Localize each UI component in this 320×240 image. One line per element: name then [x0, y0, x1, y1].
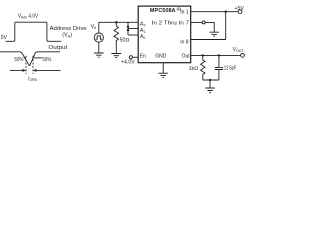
svg-text:50%: 50% [14, 57, 23, 63]
wire output waveform with glitch notch [0, 52, 60, 66]
svg-text:Add: Add [21, 16, 27, 20]
svg-text:): ) [70, 33, 72, 39]
node tOPEN label [28, 76, 37, 82]
svg-text:50%: 50% [42, 57, 51, 63]
svg-text:1: 1 [144, 30, 146, 34]
svg-text:GND: GND [155, 54, 167, 60]
node junction dot RC join [209, 79, 211, 81]
node tOPEN measurement arrow right [37, 69, 61, 71]
ground below GND pin [158, 73, 168, 77]
svg-text:Out: Out [182, 53, 191, 59]
wire source top lead [98, 22, 100, 33]
svg-text:12.5pF: 12.5pF [224, 65, 236, 71]
node 1k ohm label [189, 66, 198, 72]
resistor R 1k load [201, 55, 205, 80]
node +5V terminal [238, 10, 242, 14]
node junction dot on +5V line [225, 11, 227, 13]
capacitor C 12.5pF [215, 55, 223, 80]
svg-text:Address Drive: Address Drive [50, 26, 87, 32]
ground for In2-7 [209, 32, 219, 36]
node junction dot at capacitor [218, 54, 220, 56]
wire A0 pin stub [128, 34, 138, 36]
node Address Drive (VA) Output caption [48, 26, 86, 51]
node junction dot A2 [127, 26, 129, 28]
svg-text:1kΩ: 1kΩ [189, 66, 198, 72]
svg-text:In 8: In 8 [180, 39, 189, 45]
ground for output RC [205, 88, 215, 93]
wire main address bus from source to chip [99, 21, 138, 23]
wire address drive pulse waveform [6, 22, 62, 41]
svg-text:4.0V: 4.0V [28, 13, 38, 19]
ground below VA source [94, 53, 104, 57]
node Vadd 4.0V label [18, 13, 39, 19]
svg-text:A: A [94, 26, 97, 30]
svg-text:0: 0 [144, 36, 146, 40]
wire In 1 to +5V [191, 11, 239, 13]
resistor R 50ohm [114, 22, 118, 44]
wire +5V down to In 8 [225, 12, 227, 40]
svg-text:In 2 Thru In 7: In 2 Thru In 7 [152, 20, 190, 26]
svg-text:Output: Output [48, 45, 67, 51]
wire source bottom lead [98, 42, 100, 53]
node 50% left marker [14, 57, 23, 63]
wire In 2 thru In 7 stub [191, 21, 202, 23]
svg-text:+5V: +5V [235, 6, 245, 12]
node terminal circle on In2-7 line [202, 21, 205, 24]
ground below 50ohm resistor [111, 54, 121, 58]
wire resistor bottom lead [115, 44, 117, 54]
node junction dot at 1k resistor [202, 54, 204, 56]
wire In 8 stub [191, 39, 226, 41]
node +4.0V label [121, 60, 135, 66]
node address-drive waveform 0V label [1, 35, 8, 41]
node 50% right marker [34, 57, 42, 59]
node VOUT label [233, 47, 245, 53]
node 12.5pF label [224, 65, 236, 71]
svg-text:2: 2 [144, 23, 146, 27]
wire En stub [133, 56, 139, 58]
node tOPEN measurement arrow left [10, 69, 23, 71]
wire dashed 50% reference line right [32, 56, 34, 74]
wire A1 pin stub [128, 28, 138, 30]
svg-text:+4.0V: +4.0V [121, 60, 135, 66]
wire Out pin to VOUT [191, 54, 241, 56]
svg-text:OPEN: OPEN [30, 78, 37, 82]
svg-text:0V: 0V [1, 35, 8, 41]
node junction dot A1 [127, 29, 129, 31]
wire address vertical branch to A pins [127, 22, 129, 35]
wire dashed 50% reference line left [25, 56, 27, 74]
node VOUT terminal [241, 54, 245, 58]
wire down to output ground [209, 80, 211, 88]
node VA source label [91, 24, 97, 30]
op-amp U1 MPC508A chip body [138, 6, 191, 63]
wire GND pin lead [162, 63, 164, 73]
node junction dot at 50ohm tap [115, 21, 117, 23]
svg-text:En: En [140, 54, 146, 60]
svg-text:OUT: OUT [236, 49, 244, 53]
svg-text:MPC508A: MPC508A [150, 8, 176, 14]
node En input terminal circle [129, 56, 132, 59]
svg-text:50Ω: 50Ω [120, 38, 130, 44]
wire In2-7 to ground [205, 22, 214, 32]
wire RC bottom join [203, 79, 219, 81]
svg-text:In 1: In 1 [180, 10, 189, 16]
source V_A pulse generator [94, 33, 103, 42]
